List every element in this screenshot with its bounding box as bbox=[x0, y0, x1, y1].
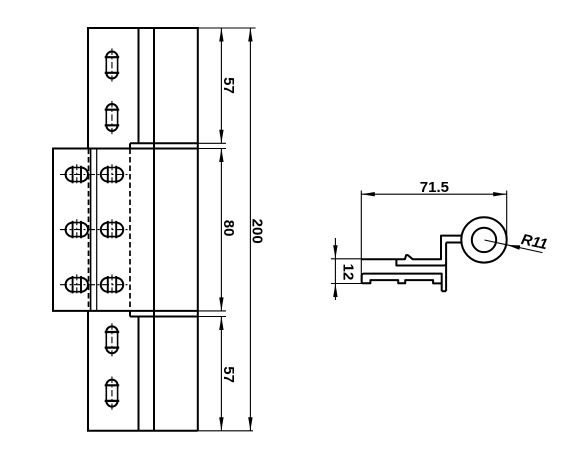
knuckle inner circle bbox=[472, 228, 496, 252]
svg-text:80: 80 bbox=[220, 220, 237, 237]
radius leader line R11 bbox=[485, 240, 543, 253]
slot hole bottom 2 bbox=[105, 377, 120, 410]
middle plate top edge bbox=[53, 148, 198, 150]
hinge top leaf plate outline bbox=[53, 27, 198, 431]
middle section inner vertical solid line x=90.6 bbox=[90, 149, 92, 311]
extension line 12 bottom bbox=[331, 283, 362, 285]
extension line y=148.5 bbox=[198, 148, 226, 150]
oval hole row3 right bbox=[101, 274, 123, 295]
profile section outline bbox=[361, 236, 461, 292]
arrowheads 200 bbox=[248, 28, 252, 42]
slot hole bottom 1 bbox=[105, 323, 120, 356]
step vertical x=130 bottom bbox=[129, 311, 131, 317]
right edge of hinge body bbox=[197, 27, 199, 431]
middle plate left edge bbox=[52, 148, 54, 312]
slot hole top 2 bbox=[105, 101, 120, 134]
arrowheads 57 bottom bbox=[219, 317, 223, 331]
hidden dashed line x=130 (middle plate right edge) bbox=[129, 149, 131, 311]
oval hole row2 right bbox=[101, 219, 123, 240]
extension line bottom y=430.8 bbox=[198, 430, 253, 432]
oval hole row1 right bbox=[101, 164, 123, 185]
neck inner vertical and leg outer edge bbox=[445, 243, 447, 292]
neck lower line to circle bbox=[446, 242, 462, 244]
arrowhead 71.5 left bbox=[361, 192, 375, 196]
hidden dashed line x=88.5 bbox=[88, 149, 90, 311]
svg-text:57: 57 bbox=[220, 366, 237, 383]
top edge of top plate bbox=[88, 27, 198, 29]
rib line x=138.5 bottom section bbox=[138, 317, 140, 431]
arrowheads 57 top bbox=[219, 28, 223, 42]
oval hole row1 left bbox=[66, 164, 88, 185]
arrowhead 71.5 right bbox=[493, 192, 507, 196]
step vertical x=130 top bbox=[129, 143, 131, 148]
arrowhead 12 bottom (outside pointing up) bbox=[333, 284, 337, 298]
arrowhead 12 top (outside pointing down) bbox=[333, 245, 337, 258]
extension line y=310.9 bbox=[198, 310, 226, 312]
svg-text:71.5: 71.5 bbox=[420, 179, 449, 196]
step line y=316.5 bbox=[130, 316, 198, 318]
leg foot bottom bbox=[442, 290, 446, 292]
svg-text:12: 12 bbox=[340, 264, 357, 281]
extension line y=143.3 bbox=[198, 142, 226, 144]
oval holes horizontal centerlines bbox=[60, 175, 128, 285]
extension line 12 top bbox=[331, 258, 362, 260]
middle section thin vertical line x=96.7 bbox=[96, 149, 98, 311]
left edge of bottom plate bbox=[87, 311, 89, 431]
step line y=143.3 bbox=[130, 142, 198, 144]
wall line y=273.6 with left corner down bbox=[362, 274, 442, 292]
bottom edge of bottom plate bbox=[87, 430, 198, 432]
oval hole row3 left bbox=[66, 274, 88, 295]
arm top edge with snap flag bbox=[361, 236, 461, 260]
svg-text:200: 200 bbox=[249, 219, 266, 244]
arrowheads 80 bbox=[219, 149, 223, 163]
bottom edge with teeth bbox=[362, 280, 442, 283]
lower wall line y=265.5 with left end tick bbox=[396, 259, 446, 265]
extension line right x=506.7 bbox=[506, 191, 508, 246]
extension line top y=28 bbox=[198, 27, 256, 29]
extension line y=316.5 bbox=[198, 316, 226, 318]
middle plate bottom edge bbox=[53, 310, 198, 312]
dimension line 12 bbox=[334, 238, 336, 300]
knuckle outer circle bbox=[461, 217, 506, 262]
arrowhead R11 on circle bbox=[507, 245, 521, 250]
rib line x=138.5 top section bbox=[138, 28, 140, 143]
dimension line 71.5 bbox=[361, 193, 506, 195]
left edge of top plate bbox=[87, 27, 89, 149]
extension line left x=361.3 bbox=[360, 191, 362, 282]
dimension line 200 bbox=[249, 28, 251, 431]
dimension line 80 bbox=[220, 149, 222, 311]
dimension line 57 bottom bbox=[220, 317, 222, 431]
rib line x=154 full height bbox=[153, 28, 155, 431]
slot hole top 1 bbox=[105, 48, 120, 81]
oval hole row2 left bbox=[66, 219, 88, 240]
svg-text:57: 57 bbox=[220, 77, 237, 94]
dimension line 57 top bbox=[220, 28, 222, 143]
